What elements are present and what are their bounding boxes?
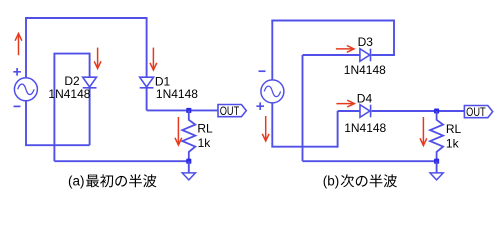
svg-text:RL: RL	[446, 122, 462, 136]
diode D1	[140, 77, 154, 87]
wire	[271, 20, 394, 22]
diode D4	[360, 105, 370, 118]
net flag OUT (a)	[218, 105, 246, 117]
svg-text:OUT: OUT	[220, 104, 240, 118]
svg-text:1k: 1k	[198, 136, 212, 150]
svg-text:1N4148: 1N4148	[156, 87, 198, 101]
wire	[337, 111, 339, 148]
red current arrow (down, source branch b)	[265, 116, 267, 141]
ground symbol (a)	[188, 161, 190, 173]
voltage source V1 (AC)	[14, 78, 37, 101]
svg-text:D3: D3	[358, 35, 374, 49]
wire	[146, 88, 148, 111]
red current arrow (right, at D3)	[336, 48, 354, 50]
red current arrow (down, at D2)	[97, 48, 99, 69]
wire	[53, 54, 55, 162]
svg-text:D4: D4	[357, 92, 373, 106]
svg-text:1N4148: 1N4148	[344, 121, 386, 135]
diode D3	[360, 49, 370, 62]
caption kanji 次の半波	[341, 174, 397, 187]
svg-text:OUT: OUT	[466, 105, 486, 119]
red current arrow (down, at D1)	[152, 48, 154, 70]
junction node (b output)	[434, 108, 439, 113]
wire	[147, 109, 218, 111]
wire	[338, 110, 360, 112]
minus label V1	[14, 105, 21, 107]
wire	[302, 55, 304, 161]
wire	[25, 18, 27, 78]
red current arrow (right, at D4)	[336, 103, 354, 105]
wire	[89, 53, 91, 77]
resistor RL (b)	[430, 111, 443, 161]
resistor RL (a)	[182, 110, 195, 161]
voltage source V2 (AC)	[261, 80, 284, 103]
wire	[371, 54, 395, 56]
wire	[271, 146, 337, 148]
red current arrow (down, at RL a)	[177, 117, 179, 145]
plus label V2	[256, 102, 264, 110]
red current arrow (up, source branch a)	[18, 34, 20, 56]
svg-text:1k: 1k	[446, 137, 460, 151]
plus label V1	[13, 68, 21, 76]
svg-text:(b): (b)	[323, 174, 340, 189]
wire	[271, 103, 273, 147]
minus label V2	[259, 70, 266, 72]
wire	[25, 144, 90, 146]
wire	[271, 21, 273, 81]
wire	[393, 20, 395, 55]
ground symbol (b)	[436, 161, 438, 173]
junction node (a output)	[186, 108, 191, 113]
svg-text:1N4148: 1N4148	[48, 87, 90, 101]
wire	[89, 88, 91, 145]
svg-text:(a): (a)	[68, 174, 85, 189]
red current arrow (down, at RL b)	[422, 117, 424, 146]
junction node (b ground)	[434, 159, 439, 164]
junction node (a ground)	[186, 159, 191, 164]
wire	[25, 101, 27, 146]
net flag OUT (b)	[464, 106, 492, 118]
wire	[303, 160, 437, 162]
wire	[372, 110, 465, 112]
svg-text:1N4148: 1N4148	[344, 63, 386, 77]
wire	[53, 53, 89, 55]
caption kanji 最初の半波	[86, 174, 156, 187]
wire	[54, 160, 188, 162]
diode D2	[83, 77, 97, 87]
wire	[25, 17, 147, 19]
wire	[146, 17, 148, 77]
wire	[303, 54, 360, 56]
svg-text:RL: RL	[197, 122, 213, 136]
